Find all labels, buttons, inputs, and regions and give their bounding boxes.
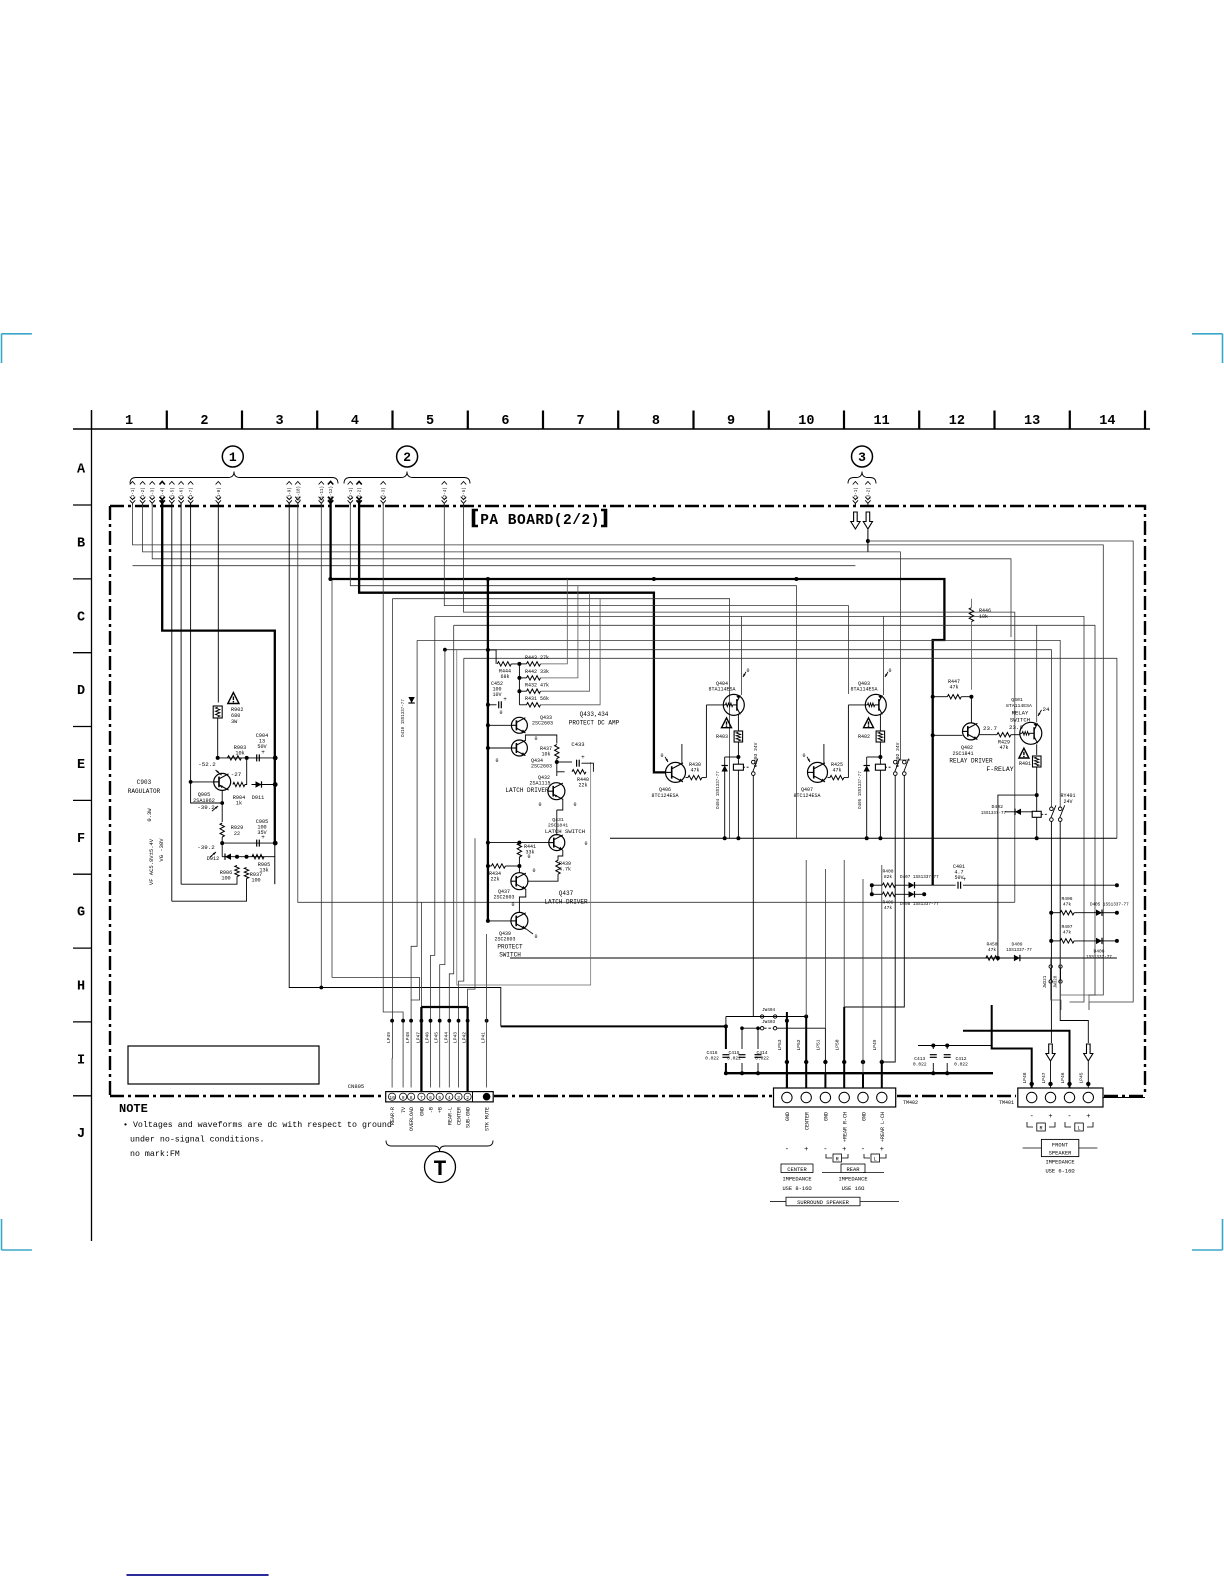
wire R447 wires (933, 696, 948, 698)
wire casc v453 (449, 625, 453, 1087)
wire ladder stubs (519, 663, 526, 665)
wire Q403 base vert (847, 705, 849, 778)
svg-text:PROTECT: PROTECT (497, 944, 523, 951)
junction spine 725 (486, 723, 490, 727)
svg-text:2SA1115: 2SA1115 (529, 781, 550, 787)
wire gnd ext (992, 1072, 994, 1074)
svg-text:LP46: LP46 (425, 1032, 431, 1043)
wire R431 up (541, 599, 601, 705)
resistor R408 (882, 883, 895, 887)
wire R444 to ladder (511, 664, 519, 705)
wire D405 right (1102, 912, 1117, 914)
svg-text:-27: -27 (231, 771, 242, 778)
diode D405b (1096, 910, 1102, 916)
svg-text:D407 1SS1337-77: D407 1SS1337-77 (900, 875, 939, 880)
wire C413 stub up (932, 1046, 934, 1050)
svg-text:47k: 47k (988, 947, 997, 953)
wire R403 to coil (737, 742, 739, 764)
svg-text:10: 10 (389, 1095, 395, 1101)
svg-text:R406: R406 (1061, 896, 1072, 902)
junction JW403 (740, 1026, 744, 1030)
svg-text:LP48: LP48 (1022, 1072, 1028, 1083)
wire bus1-5v (171, 503, 173, 901)
svg-text:+: + (842, 1146, 846, 1154)
wire R443 up (541, 579, 568, 664)
wire R402 to coil (879, 742, 881, 764)
row ruler (73, 410, 92, 1241)
svg-text:1SS1337-77: 1SS1337-77 (1086, 955, 1112, 960)
svg-text:0: 0 (746, 668, 749, 674)
svg-text:CENTER: CENTER (805, 1112, 811, 1130)
junction Q402 base (931, 733, 935, 737)
wire JW drop2 (1061, 982, 1090, 1011)
connector group 2 marker (344, 446, 470, 484)
label latch switch (545, 828, 585, 835)
svg-text:+: + (503, 696, 507, 703)
wire emitter rail Q403 (883, 616, 885, 695)
resistor R432 (525, 683, 549, 694)
svg-text:PA BOARD(2/2): PA BOARD(2/2) (480, 513, 600, 529)
wire R902 to node (217, 718, 219, 758)
resistor R403 (716, 731, 743, 742)
label Q437a (493, 889, 514, 901)
wire Q432 down to Q431 (556, 810, 558, 835)
svg-text:GND: GND (419, 1107, 425, 1116)
svg-text:22: 22 (234, 831, 240, 837)
svg-text:1: 1 (229, 450, 237, 465)
svg-text:9: 9 (727, 414, 735, 429)
footer rule (127, 1574, 269, 1576)
svg-text:0.022: 0.022 (705, 1056, 719, 1062)
svg-text:(1-3): (1-3) (151, 487, 156, 500)
resistor R904 (233, 782, 245, 806)
wire regulator right rail lower (274, 843, 276, 884)
svg-text:D402: D402 (991, 804, 1003, 810)
wire Q439 emitter (526, 929, 533, 934)
label rear impedance (822, 1164, 884, 1192)
connector pin (1-10) (295, 482, 301, 506)
svg-text:R442 33k: R442 33k (525, 669, 549, 675)
capacitor C905 (256, 819, 268, 847)
svg-text:no mark:FM: no mark:FM (130, 1149, 180, 1159)
svg-text:0.022: 0.022 (755, 1056, 769, 1062)
resistor R431 (525, 696, 549, 707)
wire bus2-2 thick (359, 503, 665, 772)
svg-text:47k: 47k (884, 905, 893, 911)
junction R406 dots (1049, 911, 1119, 915)
resistor R439 (556, 860, 571, 874)
connector pin (1-5) (169, 482, 175, 506)
wire thick to LP48 (992, 1005, 1032, 1088)
wire JW403 right (777, 1028, 826, 1087)
test point T (425, 1152, 456, 1183)
label LP51 (816, 1039, 822, 1050)
label center impedance (781, 1164, 813, 1192)
wire Q404 base vert (705, 705, 707, 778)
note line 3 (130, 1149, 180, 1159)
junction RY402 bus (878, 836, 882, 840)
voltage 24 (1038, 706, 1050, 716)
resistor R409 (882, 892, 895, 911)
label Q431 (548, 817, 568, 829)
junction R409 (870, 883, 926, 896)
svg-text:0: 0 (511, 902, 514, 908)
wire bus1-2b (868, 552, 910, 760)
svg-text:OVERLOAD: OVERLOAD (409, 1107, 415, 1131)
TM402 pin labels (785, 1112, 886, 1142)
svg-text:E: E (77, 758, 85, 773)
voltage -27 (231, 771, 242, 778)
svg-text:50V: 50V (954, 875, 963, 881)
wire C415 stubs (741, 1028, 743, 1049)
svg-text:VF AC5.8V±5.4V: VF AC5.8V±5.4V (148, 838, 155, 885)
wire R442 up (541, 586, 578, 678)
transistor Q404 (708, 681, 744, 715)
wire GND stub 787 (786, 1073, 788, 1087)
capacitor C452 (491, 681, 507, 708)
wire C401 right (963, 884, 1117, 886)
wire nest 650 (445, 650, 1052, 807)
svg-text:L: L (1077, 1126, 1080, 1132)
TM401 polarity (1030, 1113, 1091, 1121)
svg-text:GND: GND (785, 1112, 791, 1121)
svg-text:REAR-L: REAR-L (447, 1107, 453, 1125)
svg-text:IMPEDANCE: IMPEDANCE (1045, 1160, 1074, 1166)
svg-text:SWITCH: SWITCH (1010, 717, 1030, 724)
connector group 1 marker (130, 446, 338, 484)
wire emitter rail Q404 (741, 616, 743, 695)
label latch driver 2 (544, 890, 588, 906)
svg-text:24: 24 (1043, 706, 1050, 713)
wire D405 top link (867, 756, 881, 758)
svg-text:0: 0 (527, 854, 530, 860)
wire nest 658 (464, 658, 1117, 838)
svg-text:REAR: REAR (847, 1167, 861, 1173)
wire Q432 collector down (557, 799, 563, 810)
svg-text:(1-5): (1-5) (170, 487, 175, 500)
wire Q905 emitter wire (221, 790, 223, 822)
transistor Q905 (193, 773, 231, 804)
wire C414 stubs (757, 1028, 759, 1049)
junction R447 left (931, 695, 935, 699)
svg-text:LP48: LP48 (405, 1032, 411, 1043)
wire C452 wire (488, 704, 497, 706)
voltage -39.2 b (197, 844, 216, 857)
svg-text:D911: D911 (252, 795, 264, 801)
svg-text:LP47: LP47 (1041, 1072, 1047, 1083)
wire C413 stub dn (932, 1063, 934, 1073)
wire R425 47k wire (828, 777, 830, 779)
wire v844 up light (843, 860, 845, 1007)
svg-text:-52.2: -52.2 (198, 761, 216, 768)
junction R401 795 (1035, 793, 1039, 797)
junction spine 705 (486, 703, 490, 707)
wire Q403 base rail (848, 704, 865, 706)
svg-text:8TC124ESA: 8TC124ESA (793, 793, 820, 799)
svg-text:USE 16Ω: USE 16Ω (842, 1186, 865, 1192)
wire v825 up (824, 869, 826, 1028)
wire contact drop RY402b (844, 775, 904, 1007)
svg-text:D408 1SS1337-77: D408 1SS1337-77 (900, 902, 939, 907)
wire D408 right (915, 893, 925, 895)
wire LP53 drop (786, 1012, 788, 1088)
wire ground bus mid (610, 837, 1117, 839)
CN805 pin labels (390, 1107, 491, 1131)
label LP50 (835, 1039, 841, 1050)
voltage 23.9 (1009, 724, 1023, 731)
wire R406 row (1059, 912, 1061, 914)
svg-text:SURROUND SPEAKER: SURROUND SPEAKER (797, 1200, 850, 1206)
svg-text:JW403: JW403 (762, 1020, 776, 1025)
connector pin (3-1) (853, 482, 859, 506)
svg-text:D405 1SS1337-77: D405 1SS1337-77 (1090, 903, 1129, 908)
label LP49b (872, 1039, 878, 1050)
svg-text:-: - (861, 1146, 865, 1154)
resistor R425 47k (830, 762, 844, 780)
junction D404 bus (723, 755, 741, 840)
diode D408 (900, 891, 939, 907)
cluster box (457, 650, 591, 985)
svg-text:CN805: CN805 (348, 1083, 365, 1090)
wire R434 to base (505, 865, 519, 867)
resistor R407 (1060, 924, 1074, 943)
warning triangle Q404 (722, 718, 732, 728)
diode D407 (900, 875, 939, 889)
svg-text:CENTER: CENTER (787, 1167, 807, 1173)
svg-text:47k: 47k (949, 685, 958, 691)
resistor R906 (220, 866, 239, 882)
diode D404 (717, 757, 728, 838)
svg-text:2SC1841: 2SC1841 (952, 751, 973, 757)
svg-text:B: B (77, 537, 85, 552)
wire rail 289 reg (288, 600, 290, 920)
relay coil RY401 (1032, 793, 1075, 817)
svg-text:(1-7): (1-7) (189, 487, 194, 500)
svg-text:R443 27k: R443 27k (525, 655, 549, 661)
capacitor C414 (755, 1050, 770, 1062)
connector pin (2-4) (442, 482, 448, 506)
label latch driver 1 (505, 787, 549, 794)
junction D911 rail (273, 782, 278, 787)
resistor R903 (227, 745, 246, 760)
wire R437 down (556, 759, 558, 777)
wire Q406 collector up (681, 744, 683, 765)
svg-text:+: + (1086, 1113, 1090, 1121)
wire R446 wires (970, 599, 972, 608)
wire v1051 G (1050, 913, 1052, 941)
wire Q407 collector up (823, 744, 825, 765)
wire R429 to Q401 (1011, 734, 1020, 736)
connector pin (2-5) (461, 482, 467, 506)
diode D409 (1006, 942, 1032, 962)
transistor Q434 (511, 740, 552, 770)
svg-text:9: 9 (402, 1095, 405, 1101)
svg-text:R403: R403 (716, 734, 728, 740)
svg-text:2: 2 (466, 1095, 469, 1101)
svg-text:C415: C415 (728, 1050, 739, 1056)
ladder dots (517, 662, 521, 693)
svg-text:D: D (77, 684, 85, 699)
svg-text:LP45: LP45 (434, 1032, 440, 1043)
wire nest 640 (417, 640, 1060, 806)
svg-text:SUB-GND: SUB-GND (466, 1107, 472, 1128)
svg-text:LP50: LP50 (835, 1039, 841, 1050)
junction R407 dots (1049, 939, 1119, 943)
svg-text:R431 56k: R431 56k (525, 696, 549, 702)
wire bus2-3 (383, 503, 403, 1088)
svg-text:LP47: LP47 (415, 1032, 421, 1043)
svg-text:D410 1SS1337-77: D410 1SS1337-77 (402, 699, 406, 737)
resistor R434 (489, 864, 505, 883)
svg-text:2: 2 (403, 450, 411, 465)
svg-text:0.022: 0.022 (954, 1062, 968, 1068)
wire LP49b drop (881, 1062, 883, 1088)
wire v392 (391, 599, 393, 1088)
svg-text:1SS1337-77: 1SS1337-77 (1006, 948, 1032, 953)
svg-text:NOTE: NOTE (119, 1102, 148, 1116)
svg-text:T: T (433, 1157, 446, 1182)
wire casc v417 (411, 640, 417, 1087)
connector pin (2-1) (348, 482, 354, 506)
note line 2 (130, 1135, 264, 1145)
svg-text:D406: D406 (1093, 949, 1104, 955)
svg-text:Q437: Q437 (559, 890, 574, 897)
svg-text:LATCH SWITCH: LATCH SWITCH (545, 828, 585, 835)
svg-text:VG -30V: VG -30V (158, 838, 165, 862)
resistor R443 (525, 655, 549, 666)
wire bus1-3 (152, 503, 1011, 637)
svg-text:(2-1): (2-1) (349, 487, 354, 500)
svg-text:3: 3 (457, 1095, 460, 1101)
svg-text:24V: 24V (1063, 799, 1072, 805)
junction spine 921 (486, 919, 490, 923)
wire Q402 base (933, 734, 963, 736)
transistor Q401 (1006, 697, 1042, 744)
svg-text:G: G (77, 906, 85, 921)
resistor R446 (969, 608, 991, 622)
wire JW drop (1051, 982, 1061, 1011)
junction +B at spine (486, 577, 490, 581)
svg-text:0: 0 (573, 802, 576, 808)
svg-text:68k: 68k (500, 674, 509, 680)
wire RY401 coil down (1036, 817, 1038, 838)
resistor R429 (997, 733, 1011, 752)
svg-text:-39.2: -39.2 (197, 804, 215, 811)
svg-text:LP52: LP52 (796, 1039, 802, 1050)
svg-text:SPEAKER: SPEAKER (1049, 1151, 1072, 1157)
wire R439 to Q437 (527, 874, 558, 881)
svg-text:0: 0 (802, 753, 805, 759)
wire D404 top link (725, 756, 739, 758)
svg-text:IMPEDANCE: IMPEDANCE (838, 1177, 867, 1183)
svg-text:R432 47k: R432 47k (525, 683, 549, 689)
jumper JW403 (760, 1020, 776, 1030)
svg-text:LP41: LP41 (481, 1032, 487, 1043)
svg-text:2SC2603: 2SC2603 (532, 721, 553, 727)
wire heavy stub C416 (725, 1063, 727, 1073)
wire C412 stub dn (946, 1063, 948, 1073)
svg-text:47k: 47k (1063, 902, 1072, 908)
wire bus2-5 (464, 503, 1015, 902)
svg-text:0.022: 0.022 (913, 1062, 927, 1068)
junction caps (931, 1044, 949, 1076)
junction 321 987 (319, 986, 323, 990)
wire LP50 drop (843, 1007, 845, 1088)
junction spine 842 (486, 841, 522, 845)
resistor R430 47k (688, 762, 702, 780)
wire ladder stub4 (519, 704, 526, 706)
svg-text:3: 3 (858, 450, 866, 465)
wire R447 right (961, 697, 971, 724)
wire Q404 base rail (706, 704, 723, 706)
regulator note 0.3W (146, 808, 153, 822)
svg-text:3: 3 (276, 414, 284, 429)
svg-text:R402: R402 (858, 734, 870, 740)
svg-text:LP49: LP49 (872, 1039, 878, 1050)
svg-text:C: C (77, 610, 85, 625)
connector pin (2-3) (381, 482, 387, 506)
svg-text:22k: 22k (490, 877, 499, 883)
node row2 regulator (220, 841, 277, 846)
PA board outline (110, 506, 1145, 1096)
TM402 polarity (785, 1146, 884, 1154)
wire R406-D405 (1074, 912, 1096, 914)
svg-text:JW321: JW321 (1044, 975, 1048, 988)
resistor R442 (525, 669, 549, 680)
svg-text:8TC124ESA: 8TC124ESA (651, 793, 678, 799)
svg-text:8: 8 (652, 414, 660, 429)
svg-text:0: 0 (499, 710, 502, 716)
junction RY403 bus (736, 836, 740, 840)
wire C416 stub2 (725, 1063, 727, 1073)
svg-text:• Voltages and waveforms are d: • Voltages and waveforms are dc with res… (123, 1120, 392, 1130)
svg-text:7: 7 (420, 1095, 423, 1101)
voltage 23.7 (983, 725, 997, 732)
off-board arrow (3-1) (851, 512, 860, 529)
wire C433 right (582, 763, 594, 772)
warning triangle regulator (228, 693, 239, 704)
svg-text:0: 0 (534, 736, 537, 742)
junction TM402 dots (785, 1060, 884, 1064)
svg-text:-: - (1067, 1113, 1071, 1121)
label relay switch (1010, 710, 1030, 724)
svg-text:C903: C903 (137, 779, 152, 786)
wire h 977 (332, 978, 420, 1001)
wire JW404 left (726, 1016, 761, 1018)
transistor Q437 (511, 873, 528, 890)
wire reg bottom left 1 (181, 877, 237, 885)
wire bus1-10 (298, 503, 1015, 902)
junction D402 bus (996, 956, 1000, 960)
wire coil to bus RY403 (737, 770, 739, 838)
connector pin (2-2) (356, 482, 362, 506)
svg-text:23.7: 23.7 (983, 725, 997, 732)
wire JW lines (1050, 958, 1052, 967)
svg-text:100: 100 (221, 876, 230, 882)
svg-text:TM401: TM401 (999, 1100, 1014, 1106)
wire coil to bus RY402 (879, 770, 881, 838)
relay contact RY402 extra (903, 759, 909, 776)
capacitor C433 (577, 754, 585, 767)
junction spine 650 (486, 648, 490, 652)
connector pin (1-2) (140, 482, 146, 506)
svg-text:LP49: LP49 (386, 1032, 392, 1043)
label C433 (571, 741, 584, 748)
diode D402 (981, 804, 1033, 816)
svg-text:6: 6 (501, 414, 509, 429)
wire D407 right (915, 884, 933, 886)
svg-text:+: + (581, 754, 585, 761)
